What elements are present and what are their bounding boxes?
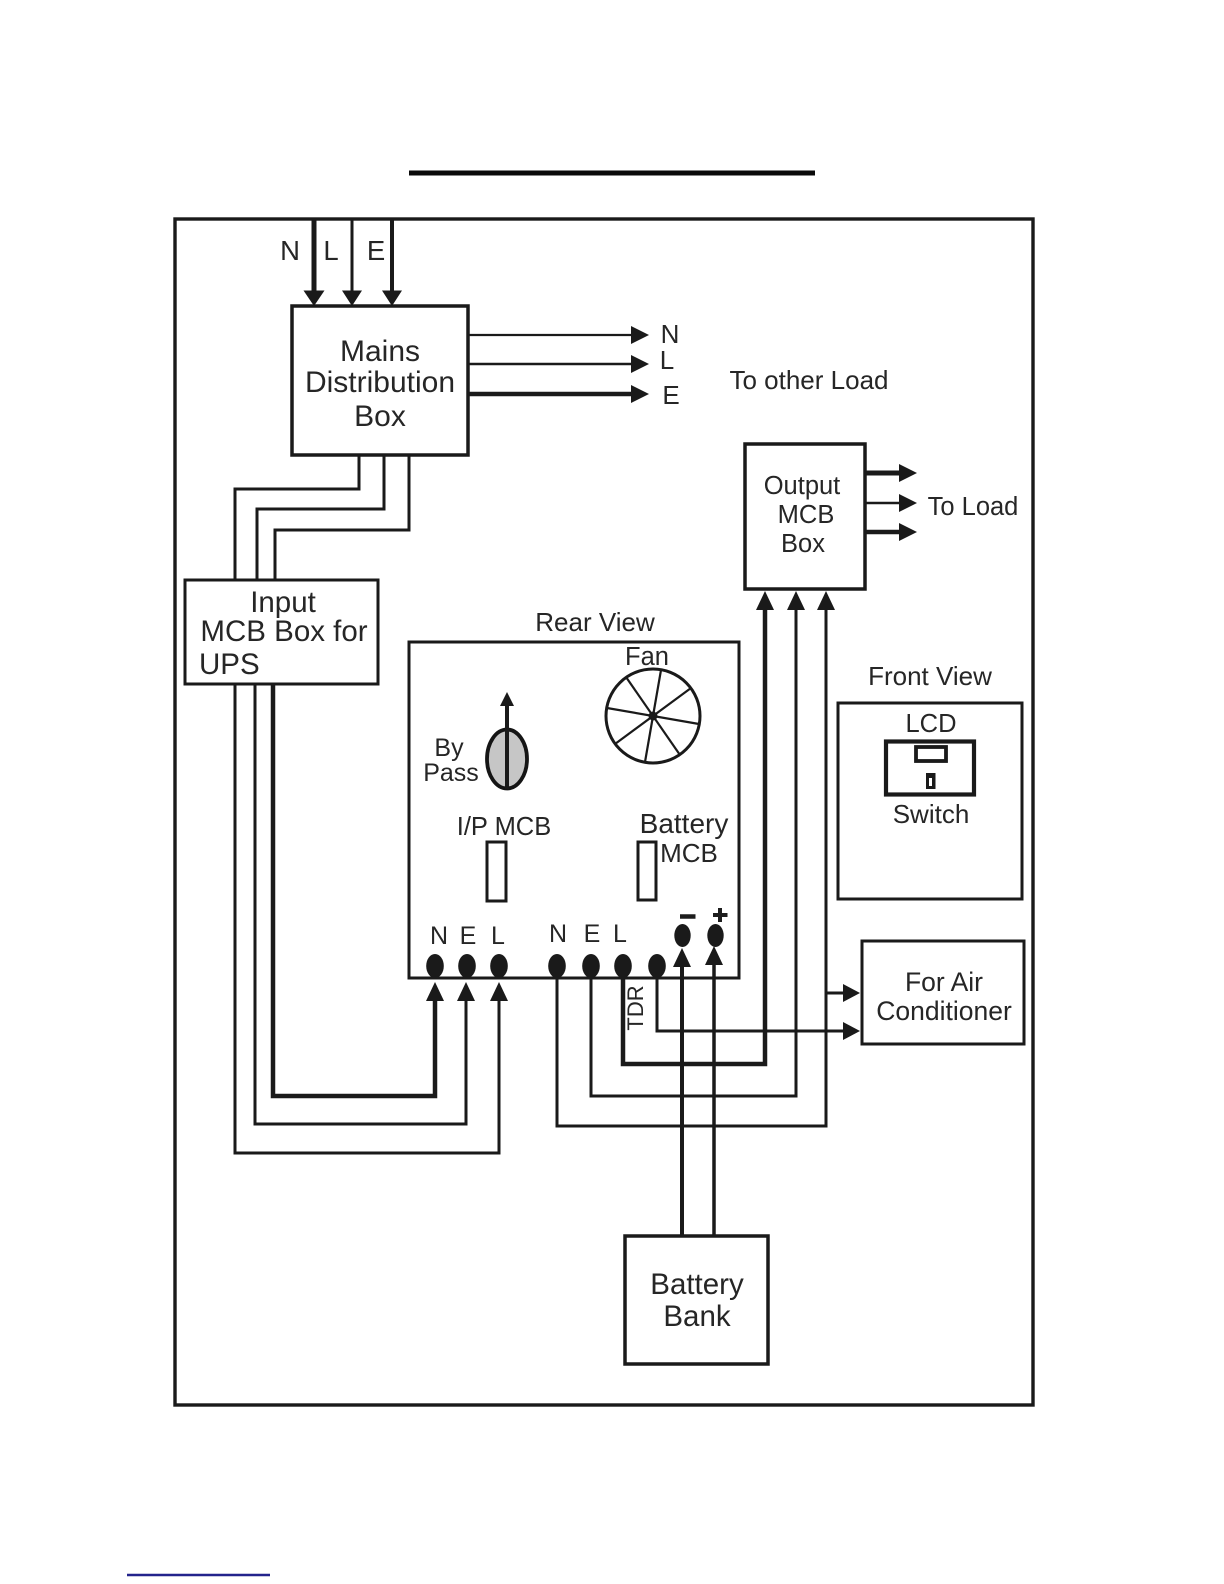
by-pass switch bbox=[487, 730, 527, 790]
terminal E1 bbox=[458, 954, 476, 978]
wire N2 to output MCB bbox=[557, 591, 835, 1126]
bottom blue rule bbox=[127, 1574, 270, 1577]
Input MCB Box for UPS bbox=[185, 580, 378, 684]
I/P MCB breaker bbox=[487, 842, 506, 901]
switch toggle bbox=[926, 773, 936, 789]
wire E2 to output MCB bbox=[591, 591, 805, 1096]
svg-text:By: By bbox=[434, 734, 464, 762]
svg-text:MCB Box for: MCB Box for bbox=[200, 615, 367, 648]
svg-text:N: N bbox=[280, 235, 300, 266]
by-pass arrow bbox=[500, 692, 514, 731]
wire battery plus bbox=[705, 946, 723, 1236]
svg-text:E: E bbox=[584, 920, 601, 948]
svg-text:Output: Output bbox=[764, 472, 841, 500]
wire mains to input box 2 bbox=[257, 455, 384, 580]
svg-text:L: L bbox=[323, 235, 338, 266]
wire output to load 3 (thick) bbox=[865, 523, 917, 541]
svg-text:L: L bbox=[491, 922, 505, 950]
wire output to load 1 (thick) bbox=[865, 464, 917, 482]
svg-text:N: N bbox=[549, 920, 567, 948]
LCD screen bbox=[916, 747, 946, 761]
wire mains to input box 3 bbox=[275, 455, 409, 580]
svg-text:Box: Box bbox=[781, 530, 825, 558]
svg-text:For Air: For Air bbox=[905, 967, 983, 997]
svg-text:Distribution: Distribution bbox=[305, 366, 455, 399]
wire input box to rear N terminal (thick) bbox=[273, 684, 444, 1096]
wire E to other load bbox=[468, 385, 649, 403]
svg-text:Fan: Fan bbox=[625, 643, 669, 671]
svg-text:L: L bbox=[613, 920, 627, 948]
svg-text:MCB: MCB bbox=[660, 838, 718, 868]
svg-text:MCB: MCB bbox=[778, 501, 835, 529]
svg-text:Battery: Battery bbox=[640, 808, 729, 839]
Output MCB Box bbox=[745, 444, 865, 589]
terminal minus bbox=[674, 924, 690, 947]
svg-text:Switch: Switch bbox=[893, 799, 970, 829]
label plus bbox=[713, 908, 728, 922]
battery MCB breaker bbox=[638, 842, 656, 900]
svg-text:Box: Box bbox=[354, 400, 406, 433]
front view box bbox=[838, 703, 1022, 899]
rear view box bbox=[409, 642, 739, 978]
terminal N2 bbox=[548, 954, 566, 978]
label By Pass bbox=[423, 734, 479, 787]
wire TDR to air conditioner bbox=[657, 978, 860, 1040]
title underline bbox=[409, 171, 815, 176]
fan bbox=[606, 669, 700, 763]
wire N to other load bbox=[468, 326, 649, 344]
terminal TDR bbox=[648, 954, 666, 978]
terminal L1 bbox=[490, 954, 508, 978]
wire output to load 2 bbox=[865, 494, 917, 512]
terminal L2 bbox=[614, 954, 632, 978]
wire N input arrow bbox=[304, 220, 325, 306]
svg-text:N: N bbox=[430, 922, 448, 950]
svg-text:E: E bbox=[460, 922, 477, 950]
terminal E2 bbox=[582, 954, 600, 978]
Mains Distribution Box bbox=[292, 306, 468, 455]
svg-text:E: E bbox=[662, 380, 679, 410]
wire battery minus bbox=[673, 948, 691, 1236]
svg-text:To Load: To Load bbox=[928, 493, 1019, 521]
svg-text:E: E bbox=[367, 235, 385, 266]
svg-text:Mains: Mains bbox=[340, 335, 420, 368]
wire input box to rear E terminal bbox=[255, 684, 475, 1124]
For Air Conditioner box bbox=[862, 941, 1024, 1044]
svg-text:To other Load: To other Load bbox=[729, 365, 888, 395]
svg-text:LCD: LCD bbox=[905, 710, 956, 738]
svg-text:I/P MCB: I/P MCB bbox=[457, 813, 551, 841]
wire N2 branch to air conditioner bbox=[826, 984, 860, 1002]
svg-text:Rear View: Rear View bbox=[535, 607, 655, 637]
Battery Bank box bbox=[625, 1236, 768, 1364]
svg-text:Bank: Bank bbox=[663, 1300, 730, 1333]
svg-text:L: L bbox=[660, 345, 674, 375]
svg-text:Battery: Battery bbox=[650, 1268, 744, 1301]
terminal N1 bbox=[426, 954, 444, 978]
svg-text:UPS: UPS bbox=[199, 648, 260, 681]
label minus bbox=[680, 914, 696, 919]
wire L2 to output MCB (thick) bbox=[623, 591, 774, 1064]
wire L input arrow bbox=[342, 220, 362, 306]
front panel bbox=[886, 742, 974, 795]
wire L to other load bbox=[468, 355, 649, 373]
terminal plus bbox=[707, 924, 723, 947]
wire mains to input box 1 bbox=[235, 455, 359, 580]
svg-text:Pass: Pass bbox=[423, 759, 479, 787]
wire input box to rear L terminal bbox=[235, 684, 508, 1153]
svg-text:TDR: TDR bbox=[623, 985, 648, 1030]
wire E input arrow bbox=[382, 220, 402, 306]
outer border frame bbox=[175, 219, 1033, 1405]
svg-text:Front View: Front View bbox=[868, 661, 992, 691]
svg-text:Conditioner: Conditioner bbox=[876, 996, 1012, 1026]
